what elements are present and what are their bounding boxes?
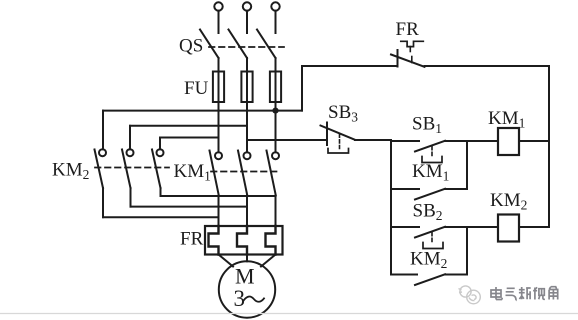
wire motor lead W	[261, 255, 276, 267]
wire SB3 to junction	[355, 139, 391, 141]
wire crossover pole1	[103, 216, 219, 218]
KM2 auxiliary contact (NO)	[391, 274, 467, 285]
svg-text:KM1: KM1	[174, 161, 211, 184]
wire phase2 QS-to-fuse	[246, 58, 248, 72]
KM1 linkage dashed	[211, 171, 281, 173]
watermark dove logo	[459, 286, 481, 304]
FR heater element phase2	[237, 226, 247, 255]
wire to KM1 coil	[467, 140, 498, 142]
wire phase1 fuse-to-KM1	[218, 102, 220, 152]
svg-text:KM1: KM1	[488, 108, 525, 131]
svg-text:FU: FU	[184, 78, 209, 99]
stop button SB3 (NC)	[321, 123, 356, 154]
wire phase3 QS-to-fuse	[275, 58, 277, 72]
svg-text:QS: QS	[179, 36, 203, 57]
contactor KM1 main contact pole1	[210, 151, 223, 227]
thermal relay FR heater box	[205, 226, 283, 255]
bottom rule	[0, 313, 578, 315]
motor M 3~	[219, 261, 275, 317]
wire KM2 pole1 drop	[102, 111, 104, 150]
svg-text:SB1: SB1	[412, 114, 442, 137]
wire phase2 fuse-to-KM1	[246, 102, 248, 152]
terminal L2	[243, 2, 251, 33]
wire phase1 QS-to-fuse	[218, 58, 220, 72]
thermal relay FR NC contact	[391, 41, 425, 67]
wire C (phase1 tap to KM2 pole3)	[160, 137, 219, 139]
wire crossover pole3 (KM2 out to KM1 out)	[161, 195, 276, 197]
KM2 linkage dashed	[95, 167, 169, 169]
coil KM1	[498, 128, 519, 155]
contactor KM2 main contact pole3	[152, 149, 164, 196]
watermark text	[491, 287, 559, 302]
KM1 auxiliary contact (NO)	[391, 189, 467, 200]
wire control tap from phase3	[276, 66, 398, 111]
junction dot on phase3	[272, 108, 278, 114]
coil KM2	[498, 215, 519, 242]
wire phase3 fuse-to-KM1	[275, 102, 277, 152]
fuse FU pole3	[270, 72, 281, 103]
wire KM2 coil to rail	[519, 226, 549, 228]
contactor KM1 main contact pole3	[267, 151, 280, 227]
svg-text:SB2: SB2	[413, 201, 443, 224]
wire parallel right vertical (SB1/KM1aux)	[466, 141, 468, 189]
start button SB1 (NO)	[391, 141, 467, 163]
svg-text:SB3: SB3	[328, 102, 358, 125]
wire crossover pole2	[131, 206, 248, 208]
wire control rung from phase2	[247, 139, 327, 141]
svg-text:KM1: KM1	[412, 161, 449, 184]
svg-text:KM2: KM2	[490, 190, 527, 213]
wire KM1 coil to rail	[519, 140, 549, 142]
wire B (phase2 tap to KM2 pole2)	[130, 125, 247, 127]
start button SB2 (NO)	[391, 227, 498, 249]
wire right rail	[548, 66, 550, 227]
fuse FU pole1	[213, 72, 224, 103]
FR heater element phase1	[209, 226, 219, 255]
terminal L1	[214, 2, 222, 33]
contactor KM2 main contact pole1	[95, 149, 107, 217]
wire bus A (phase3 tap to KM2 pole1)	[103, 110, 276, 112]
wire KM2 pole3 drop	[159, 138, 161, 150]
wire FR to right rail	[425, 65, 550, 67]
svg-text:KM2: KM2	[52, 160, 89, 183]
terminal L3	[271, 2, 279, 33]
wire motor lead U	[219, 255, 234, 267]
wire motor lead V	[246, 255, 248, 262]
wire KM2 pole2 drop	[129, 126, 131, 149]
fuse FU pole2	[241, 72, 252, 103]
svg-text:M: M	[235, 264, 255, 289]
svg-text:FR: FR	[396, 19, 420, 40]
FR heater element phase3	[266, 226, 276, 255]
contactor KM2 main contact pole2	[122, 149, 134, 206]
wire branch vertical	[390, 140, 392, 275]
svg-text:3: 3	[234, 286, 246, 311]
svg-text:FR: FR	[180, 229, 204, 250]
disconnect switch QS	[200, 30, 284, 59]
svg-text:KM2: KM2	[410, 249, 447, 272]
contactor KM1 main contact pole2	[238, 151, 251, 227]
wire parallel right vertical (SB2/KM2aux)	[466, 227, 468, 275]
